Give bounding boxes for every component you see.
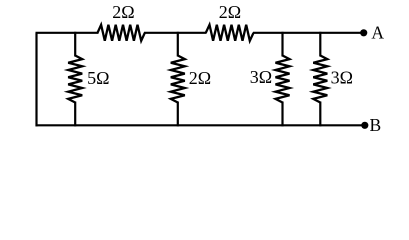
- wire: left vertical side: [35, 33, 37, 127]
- wire: middle 2Ω top stub: [177, 32, 179, 57]
- resistor R2 2Ω horizontal top-right: [206, 25, 254, 41]
- terminal B dot: [361, 122, 368, 129]
- wire: top rail middle segment: [144, 32, 207, 34]
- svg-text:B: B: [369, 115, 381, 135]
- resistor R3 5Ω vertical: [68, 56, 82, 103]
- svg-text:5Ω: 5Ω: [87, 68, 109, 88]
- resistor R4 2Ω vertical middle: [171, 56, 185, 103]
- wire: top rail left segment: [36, 32, 99, 34]
- svg-text:2Ω: 2Ω: [112, 2, 134, 22]
- svg-text:2Ω: 2Ω: [189, 68, 211, 88]
- resistor R1 2Ω horizontal top-left: [98, 25, 145, 41]
- wire: right 3Ω bottom stub: [319, 102, 321, 127]
- svg-text:3Ω: 3Ω: [250, 67, 272, 87]
- resistor R6 3Ω vertical right: [313, 56, 327, 103]
- svg-text:A: A: [371, 22, 384, 42]
- wire: left 3Ω bottom stub: [281, 102, 283, 127]
- wire: top rail right segment: [253, 32, 361, 34]
- wire: 5Ω bottom stub: [74, 102, 76, 127]
- wire: bottom rail: [36, 124, 362, 126]
- wire: 5Ω top stub: [74, 32, 76, 57]
- svg-text:3Ω: 3Ω: [331, 67, 353, 87]
- resistor R5 3Ω vertical left: [276, 56, 290, 103]
- wire: middle 2Ω bottom stub: [177, 102, 179, 127]
- wire: left 3Ω top stub: [281, 32, 283, 57]
- wire: right 3Ω top stub: [319, 32, 321, 57]
- terminal A dot: [360, 29, 367, 36]
- svg-text:2Ω: 2Ω: [219, 2, 241, 22]
